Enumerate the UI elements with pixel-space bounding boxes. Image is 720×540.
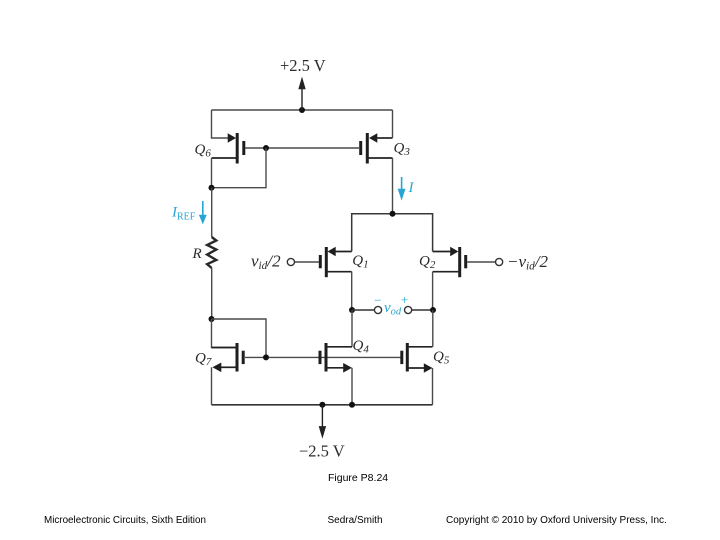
current I arrow (cyan) — [398, 177, 406, 201]
transistor Q5 (NMOS mirror) — [402, 343, 433, 373]
power -2.5 V arrow — [319, 405, 326, 439]
wire: left branch from rail to Q6 source — [212, 110, 228, 138]
wire: vod left down to Q4 drain — [351, 310, 353, 347]
wire: diff pair feed rail — [352, 214, 433, 252]
svg-text:−2.5 V: −2.5 V — [299, 442, 345, 461]
node: bottom rail dot at -2.5V tap — [319, 402, 325, 408]
power +2.5 V arrow — [298, 77, 305, 110]
svg-text:+: + — [401, 292, 408, 307]
wire: Q6 drain down to node — [211, 158, 213, 188]
node: gate bus junction dot — [263, 354, 269, 360]
wire: Q2 drain down to vod node — [432, 272, 434, 310]
node: R bottom junction dot — [209, 316, 215, 322]
wire: gate bus Q7-Q4-Q5 — [245, 356, 401, 358]
caption Figure P8.24 — [328, 472, 388, 484]
wire: vod left stub — [352, 309, 374, 311]
wire: Q4 source down to bottom rail — [351, 368, 353, 405]
node: gate-drain tie junction — [263, 145, 269, 151]
svg-text:I: I — [408, 180, 415, 196]
transistor Q2 (PMOS of diff pair) — [433, 247, 503, 277]
node: Q6 drain junction dot — [209, 185, 215, 191]
wire: resistor to bottom node — [211, 268, 213, 319]
footer left — [44, 515, 206, 526]
wire: Q5 source down to bottom rail — [432, 368, 434, 405]
current IREF arrow (cyan) — [199, 201, 207, 224]
node: vod right junction dot — [430, 307, 436, 313]
transistor Q4 (NMOS mirror) — [320, 343, 352, 373]
footer right — [446, 515, 667, 526]
node: top rail center junction dot — [299, 107, 305, 113]
svg-text:−: − — [374, 293, 381, 308]
node: vod left junction dot — [349, 307, 355, 313]
resistor R — [207, 237, 216, 268]
wire: Q3 drain down to diff pair — [392, 158, 394, 214]
wire: top supply rail — [212, 109, 393, 111]
wire: Q6 gate-drain feedback — [212, 148, 267, 188]
node: diff pair feed junction dot — [390, 211, 396, 217]
wire: Q3 source up to rail — [392, 110, 394, 138]
wire: vod right down to Q5 drain — [432, 310, 434, 347]
transistor Q1 (PMOS of diff pair) — [287, 247, 351, 277]
wire: Q1 drain down to vod node — [351, 272, 353, 310]
wire: node down to Q7 drain — [212, 319, 236, 348]
wire: node down to resistor — [211, 188, 213, 237]
wire: bottom rail — [212, 404, 433, 406]
wire: vod right stub — [412, 309, 433, 311]
svg-text:+2.5 V: +2.5 V — [280, 56, 326, 75]
wire: gate bus Q6 to Q3 — [245, 147, 359, 149]
transistor Q3 (PMOS) — [361, 133, 393, 164]
terminal: vod left circle — [374, 306, 381, 313]
transistor Q6 (PMOS, diode-connected) — [212, 133, 244, 164]
node: bottom rail dot at Q4 source — [349, 402, 355, 408]
footer center — [328, 515, 383, 526]
transistor Q7 (NMOS, diode-connected) — [212, 343, 244, 372]
svg-text:R: R — [192, 246, 202, 262]
wire: node over to gate bus — [212, 319, 267, 357]
terminal: vod right circle — [405, 306, 412, 313]
wire: Q7 source down to bottom rail — [211, 367, 213, 405]
